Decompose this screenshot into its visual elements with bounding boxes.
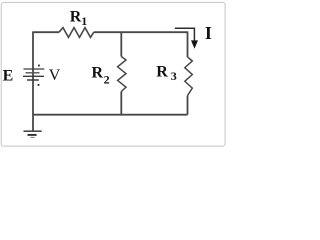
current arrowhead <box>191 40 198 48</box>
ground <box>24 131 42 137</box>
wire: left vertical (battery branch) <box>32 31 34 130</box>
resistor R1 <box>59 28 94 38</box>
svg-text:3: 3 <box>171 69 177 83</box>
wire: right vertical bottom <box>187 96 189 115</box>
svg-text:E: E <box>3 68 14 85</box>
svg-text:R: R <box>70 8 82 25</box>
battery E plates <box>23 69 44 80</box>
wire: R2 branch top <box>120 32 122 56</box>
wire: right vertical top (R3 branch) <box>187 31 189 57</box>
wire: R1 to top-right corner <box>94 31 188 33</box>
svg-text:1: 1 <box>81 14 87 28</box>
wire: R2 branch bottom <box>120 92 122 115</box>
battery polarity dot minus <box>38 84 40 86</box>
wire bottom <box>33 114 188 116</box>
svg-text:R: R <box>156 64 168 81</box>
svg-text:R: R <box>92 65 104 82</box>
resistor R2 <box>118 57 126 92</box>
svg-text:V: V <box>49 67 61 84</box>
battery polarity dot plus <box>38 65 40 67</box>
current arrow I <box>175 28 195 41</box>
wire top: node A to node B <box>33 31 59 33</box>
svg-text:I: I <box>205 23 212 43</box>
svg-text:2: 2 <box>104 72 110 86</box>
resistor R3 <box>185 57 193 96</box>
frame border <box>1 2 225 146</box>
